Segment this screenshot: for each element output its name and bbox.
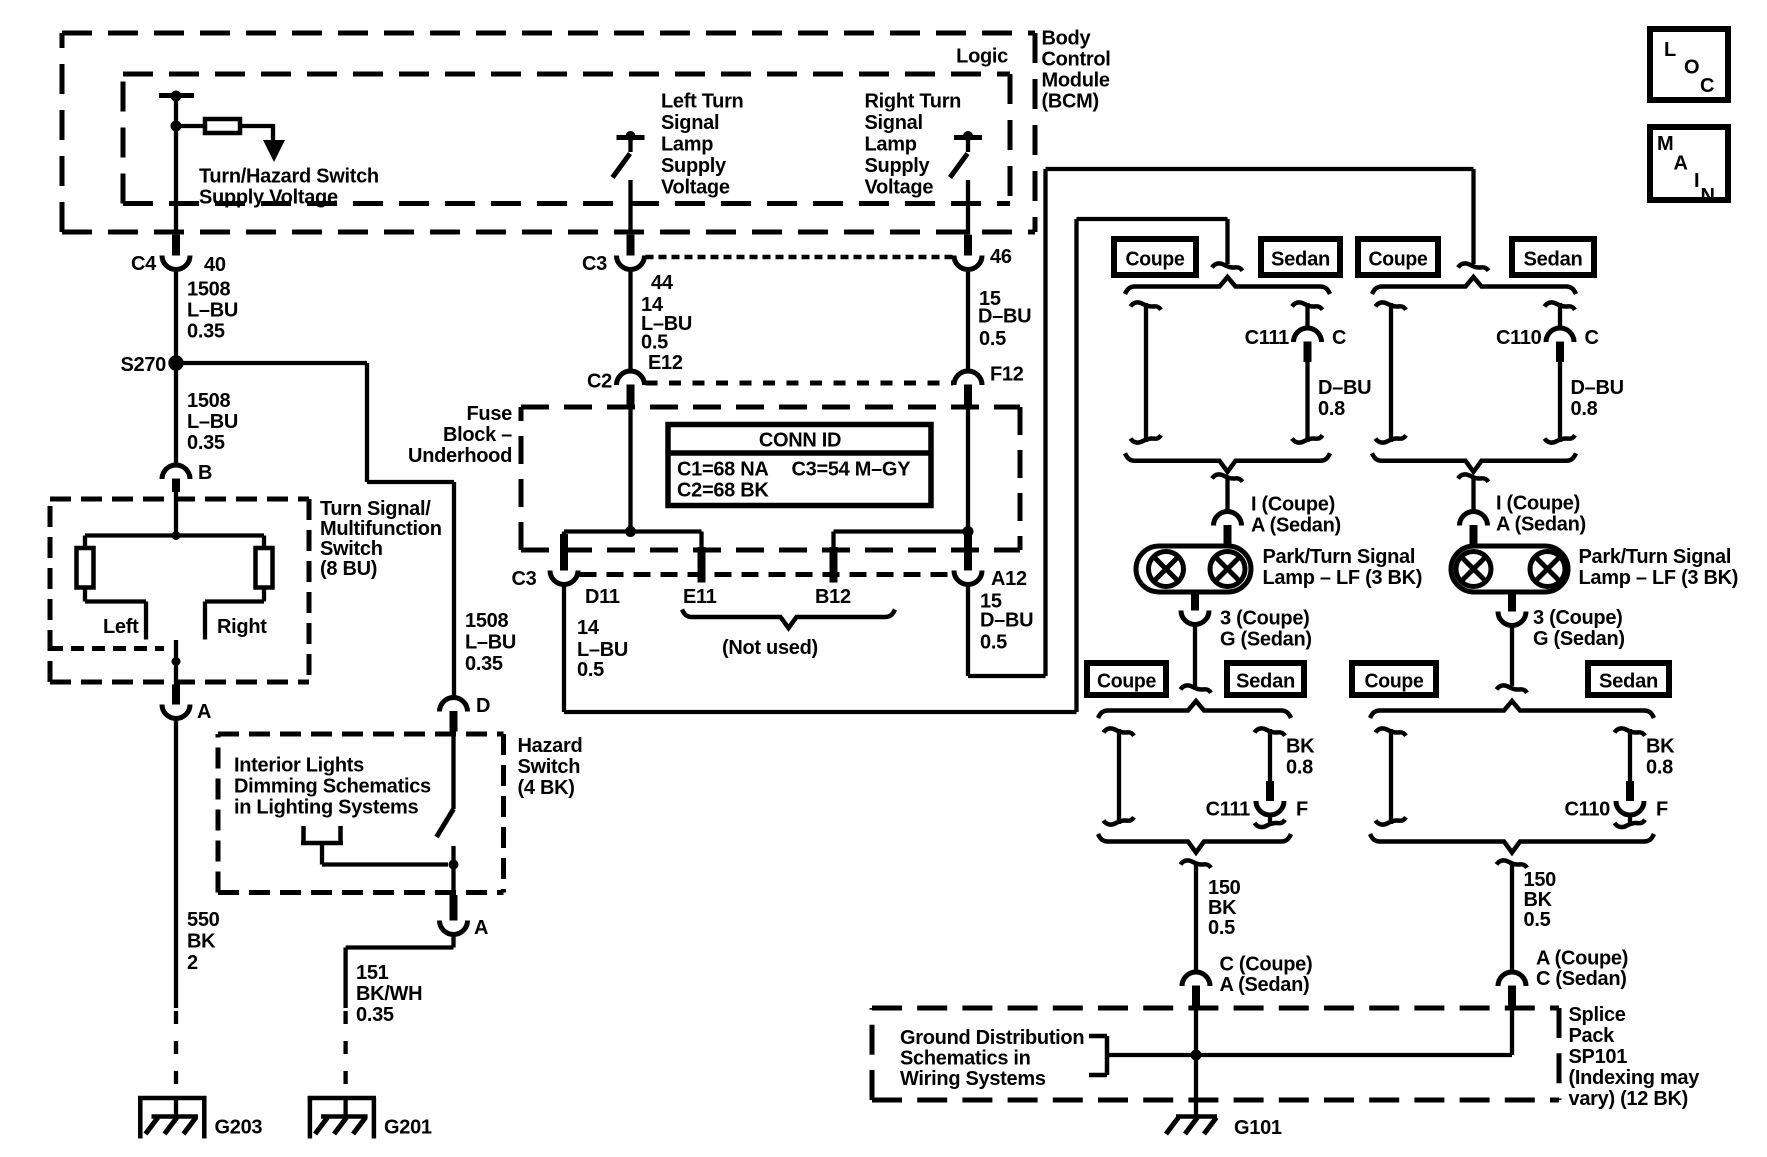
svg-text:Right Turn: Right Turn (865, 91, 962, 113)
wire: ground distribution bracket (1089, 1036, 1107, 1075)
svg-text:3 (Coupe): 3 (Coupe) (1533, 607, 1623, 629)
svg-text:in Lighting Systems: in Lighting Systems (234, 797, 418, 819)
svg-text:G (Sedan): G (Sedan) (1533, 628, 1625, 650)
svg-text:C111: C111 (1245, 327, 1290, 349)
svg-text:Block –: Block – (443, 424, 512, 446)
wire: top tick (159, 91, 194, 102)
connector pin F12 (954, 364, 1024, 407)
svg-text:C (Coupe): C (Coupe) (1220, 954, 1313, 976)
label circuit 15 D-BU 0.5 (A12) (980, 591, 1033, 654)
svg-text:D–BU: D–BU (1571, 377, 1624, 399)
wire: D11 drop (562, 532, 566, 539)
svg-text:C111: C111 (1206, 799, 1251, 821)
svg-text:0.35: 0.35 (356, 1004, 394, 1026)
node: fuse block right junction (963, 526, 974, 537)
svg-text:Body: Body (1042, 28, 1092, 50)
node: switch input junction (172, 531, 181, 540)
wire: switch pole (174, 640, 178, 685)
svg-text:Dimming Schematics: Dimming Schematics (234, 776, 431, 798)
svg-text:Lamp – LF (3 BK): Lamp – LF (3 BK) (1263, 567, 1423, 589)
svg-text:SP101: SP101 (1569, 1046, 1628, 1068)
wire: B into switch (174, 492, 178, 536)
svg-text:Switch: Switch (320, 538, 383, 560)
svg-text:C: C (1700, 75, 1714, 97)
svg-text:0.8: 0.8 (1286, 757, 1313, 779)
svg-text:(4 BK): (4 BK) (518, 777, 575, 799)
wire: row2 output left (1181, 860, 1212, 972)
svg-text:C3=54 M–GY: C3=54 M–GY (792, 459, 912, 481)
label Body Control Module (BCM) (1042, 28, 1111, 113)
svg-text:Left: Left (103, 616, 139, 638)
svg-text:M: M (1657, 133, 1673, 155)
brace: right group top (1372, 277, 1576, 294)
wire: 44 to E12 (628, 269, 632, 372)
wire: sedan drop (R1) (1545, 302, 1576, 328)
svg-text:BK: BK (1208, 897, 1237, 919)
wire: coupe bus bar (L1) (1131, 302, 1162, 442)
svg-text:1508: 1508 (465, 610, 508, 632)
wire: coupe bus bar (R2) (1376, 728, 1407, 824)
wire: sedan bar lower (R1) (1545, 362, 1576, 443)
svg-text:G101: G101 (1234, 1117, 1282, 1139)
svg-text:Underhood: Underhood (408, 445, 512, 467)
svg-text:Sedan: Sedan (1524, 248, 1583, 270)
node: pole junction (172, 657, 181, 666)
svg-text:C1=68 NA: C1=68 NA (677, 459, 769, 481)
svg-text:O: O (1684, 57, 1699, 79)
ground G101 (1166, 1117, 1282, 1140)
wire: internal bus B12-F12 (834, 529, 969, 533)
svg-text:151: 151 (356, 962, 389, 984)
brace: left group row2 bottom (1098, 834, 1291, 853)
brace: not used pins (682, 610, 895, 629)
svg-text:A (Sedan): A (Sedan) (1251, 515, 1341, 537)
node: hazard output junction (449, 860, 459, 870)
svg-text:BK: BK (187, 931, 216, 953)
svg-text:550: 550 (187, 909, 220, 931)
wire: sedan bar lower (R2) (1615, 815, 1646, 828)
svg-text:C3: C3 (512, 568, 537, 590)
svg-text:Voltage: Voltage (865, 177, 934, 199)
box Coupe (R1) (1358, 239, 1438, 275)
label Park/Turn Signal Lamp - LF (3 BK) left (1263, 546, 1423, 589)
svg-text:I (Coupe): I (Coupe) (1496, 493, 1580, 515)
svg-text:(Indexing may: (Indexing may (1569, 1067, 1701, 1089)
svg-text:I (Coupe): I (Coupe) (1251, 494, 1335, 516)
svg-text:44: 44 (651, 272, 674, 294)
svg-text:0.5: 0.5 (1208, 917, 1235, 939)
box Sedan (L1) (1261, 239, 1340, 275)
node: right group row2 split (1497, 685, 1528, 692)
wire: S270 down to connector B (174, 363, 178, 466)
wire: dotted connector row C3 (646, 255, 953, 260)
svg-text:0.35: 0.35 (187, 432, 225, 454)
svg-text:Wiring Systems: Wiring Systems (900, 1068, 1046, 1090)
brace: right group bottom (1372, 453, 1576, 472)
wire: left lamp to row2 (1193, 624, 1197, 686)
svg-text:0.35: 0.35 (187, 321, 225, 343)
svg-text:Park/Turn Signal: Park/Turn Signal (1579, 546, 1732, 568)
svg-text:G201: G201 (384, 1117, 432, 1139)
wire: F12 wire inside fuse block (966, 406, 970, 532)
label Ground Distribution Schematics in Wiring Systems (900, 1027, 1084, 1090)
wire: dashed drop to G203 (174, 1011, 178, 1117)
svg-text:1508: 1508 (187, 279, 230, 301)
label Turn Signal/Multifunction Switch (8 BU) (320, 498, 442, 580)
svg-text:Ground Distribution: Ground Distribution (900, 1027, 1084, 1049)
svg-text:Control: Control (1042, 49, 1111, 71)
box: Logic inner dashed box (123, 74, 1010, 204)
svg-text:G203: G203 (215, 1117, 263, 1139)
connector C111 pin F (1206, 781, 1308, 821)
svg-text:0.8: 0.8 (1646, 757, 1673, 779)
svg-text:C3: C3 (582, 253, 607, 275)
label circuit 150 BK 0.5 left (1208, 877, 1241, 939)
svg-text:Hazard: Hazard (518, 735, 583, 757)
svg-text:Lamp: Lamp (865, 134, 917, 156)
svg-text:N: N (1701, 185, 1715, 207)
svg-text:B: B (198, 462, 212, 484)
wire: to right lamp (1458, 474, 1489, 511)
svg-text:A: A (197, 701, 211, 723)
svg-text:Splice: Splice (1569, 1004, 1626, 1026)
svg-text:Sedan: Sedan (1271, 248, 1330, 270)
connector A hazard switch (440, 895, 489, 939)
svg-text:F12: F12 (990, 364, 1024, 386)
svg-text:L–BU: L–BU (577, 639, 628, 661)
wire: splice to G101 (1194, 1055, 1198, 1117)
pin E11 (not used) (683, 532, 717, 609)
label pin 3 (Coupe) G (Sedan) left (1220, 608, 1312, 651)
connector right lamp input (1460, 512, 1488, 546)
connector C3 pin 44 (582, 235, 674, 294)
svg-text:E11: E11 (683, 586, 717, 608)
brace: left group top (1125, 277, 1330, 294)
svg-text:0.5: 0.5 (980, 632, 1007, 654)
resistor: left turn position (77, 548, 94, 588)
svg-text:G (Sedan): G (Sedan) (1220, 629, 1312, 651)
label circuit 1508 L-BU 0.35 (to switch) (187, 390, 238, 454)
wire: E12 wire inside fuse block (628, 406, 632, 532)
wire: hazard A to G201 (346, 934, 454, 1008)
label Hazard Switch (4 BK) (518, 735, 583, 799)
lamp: Park/Turn Signal Lamp LF (left) (1136, 546, 1251, 592)
label pin I (Coupe) A (Sedan) right (1496, 493, 1586, 536)
wire: sedan drop (L1) (1292, 302, 1323, 328)
connector C3 pin D11 (512, 534, 620, 608)
svg-text:Left Turn: Left Turn (661, 91, 743, 113)
svg-text:(8 BU): (8 BU) (320, 558, 377, 580)
svg-text:Lamp: Lamp (661, 134, 713, 156)
box: Splice Pack SP101 dashed box (872, 1008, 1559, 1100)
wire: hazard out to A (451, 865, 455, 896)
svg-text:Pack: Pack (1569, 1025, 1616, 1047)
node: fuse block left junction (625, 526, 636, 537)
svg-text:BK: BK (1646, 736, 1675, 758)
wire: internal bus D11-E11 (564, 529, 702, 533)
legend LOC box (1650, 29, 1728, 100)
pin B12 (not used) (815, 532, 851, 609)
svg-text:E12: E12 (648, 352, 683, 374)
svg-text:L–BU: L–BU (187, 300, 238, 322)
svg-text:Lamp – LF (3 BK): Lamp – LF (3 BK) (1579, 567, 1739, 589)
svg-text:(Not used): (Not used) (722, 637, 818, 659)
svg-text:I: I (1694, 170, 1699, 192)
wire: to left lamp (1212, 474, 1243, 511)
wire: sedan drop (R2) (1615, 728, 1646, 781)
svg-text:C2: C2 (587, 371, 612, 393)
svg-text:A12: A12 (991, 568, 1027, 590)
node: left group split (1212, 263, 1243, 270)
svg-text:C110: C110 (1496, 327, 1542, 349)
svg-text:A: A (1674, 153, 1688, 175)
svg-text:D–BU: D–BU (980, 610, 1033, 632)
svg-text:Fuse: Fuse (467, 403, 513, 425)
ground G203 (138, 1098, 262, 1139)
node: G101 junction (1191, 1050, 1202, 1061)
svg-text:C110: C110 (1564, 799, 1610, 821)
wire: left switch to C3 (628, 180, 632, 235)
svg-text:Switch: Switch (518, 756, 581, 778)
connector C111 pin C (1245, 327, 1347, 362)
svg-text:Turn/Hazard Switch: Turn/Hazard Switch (199, 166, 379, 188)
connector C2 pin E12 (587, 352, 683, 406)
wire: right contact (205, 588, 264, 640)
svg-text:2: 2 (187, 952, 198, 974)
table: CONN ID (668, 425, 931, 506)
svg-text:L–BU: L–BU (187, 411, 238, 433)
svg-text:A (Sedan): A (Sedan) (1496, 514, 1586, 536)
svg-text:BK/WH: BK/WH (356, 983, 422, 1005)
label circuit D-BU 0.8 (R1) (1571, 377, 1624, 420)
connector left lamp output (1181, 592, 1209, 625)
svg-text:Logic: Logic (956, 46, 1008, 68)
label pin C (Coupe) A (Sedan) (1220, 954, 1313, 997)
label circuit BK 0.8 (R2) (1646, 736, 1675, 779)
svg-text:0.5: 0.5 (641, 332, 668, 354)
label circuit D-BU 0.8 (L1) (1318, 377, 1371, 420)
wire: to resistor (176, 124, 205, 128)
brace: left group row2 top (1098, 701, 1291, 718)
wire: S270 branch to hazard feed (176, 363, 454, 698)
svg-text:A (Sedan): A (Sedan) (1220, 974, 1310, 996)
svg-text:Coupe: Coupe (1365, 670, 1424, 692)
wire: dotted connector row D11-A12 (580, 572, 954, 577)
label circuit 151 BK/WH 0.35 (356, 962, 422, 1026)
svg-text:Coupe: Coupe (1097, 670, 1156, 692)
label Logic (956, 46, 1008, 68)
box: Body Control Module (BCM) outer dashed box (62, 33, 1035, 232)
connector C110 pin F (1564, 781, 1668, 821)
label Fuse Block - Underhood (408, 403, 512, 467)
box Coupe (L1) (1114, 239, 1196, 275)
brace: right group row2 top (1370, 701, 1654, 718)
switch: hazard blade (437, 732, 454, 865)
svg-text:Right: Right (217, 616, 267, 638)
svg-text:C: C (1585, 327, 1599, 349)
svg-text:D: D (476, 695, 490, 717)
wire: into splice pack right (1510, 1008, 1514, 1056)
svg-text:0.8: 0.8 (1571, 398, 1598, 420)
wire: dimming schematics bracket (301, 826, 448, 865)
svg-text:14: 14 (577, 617, 600, 639)
ground G201 (308, 1098, 432, 1139)
svg-text:0.5: 0.5 (577, 659, 604, 681)
connector D hazard switch (440, 695, 491, 732)
svg-text:Park/Turn Signal: Park/Turn Signal (1263, 546, 1416, 568)
svg-text:L–BU: L–BU (465, 632, 516, 654)
svg-text:C: C (1332, 327, 1346, 349)
resistor: turn/hazard supply (205, 119, 240, 133)
label circuit 1508 L-BU 0.35 (hazard feed) (465, 610, 516, 675)
brace: right group row2 bottom (1370, 834, 1654, 853)
wire: internal dashed partition (50, 646, 164, 651)
wire: D11 to left lamp group (564, 219, 1228, 712)
svg-text:Turn Signal/: Turn Signal/ (320, 498, 431, 520)
label Interior Lights Dimming Schematics in Lighting Systems (234, 755, 431, 819)
switch: left turn signal output (613, 131, 645, 178)
connector right lamp output (1498, 592, 1526, 626)
connector C110 pin C (1496, 327, 1599, 362)
svg-text:150: 150 (1208, 877, 1241, 899)
svg-text:F: F (1296, 799, 1308, 821)
svg-text:S270: S270 (120, 354, 166, 376)
connector left to splice pack (1182, 972, 1210, 1008)
wire: dashed drop to G201 (343, 1011, 347, 1117)
node S270 splice (120, 354, 183, 376)
brace: left group bottom (1125, 453, 1330, 472)
wire: dotted connector row E12-F12 (646, 381, 954, 386)
svg-text:C (Sedan): C (Sedan) (1536, 968, 1627, 990)
connector A turn signal switch (162, 685, 211, 724)
box: Hazard Switch dashed box (218, 734, 504, 893)
svg-text:Coupe: Coupe (1369, 248, 1428, 270)
wire: coupe bus bar (L2) (1104, 728, 1135, 824)
label Right (217, 616, 267, 638)
label Turn/Hazard Switch Supply Voltage (199, 166, 379, 209)
svg-text:F: F (1656, 799, 1668, 821)
wire: A to G203 (174, 719, 178, 1009)
svg-text:Signal: Signal (661, 112, 719, 134)
wire: A12 to right lamp group (968, 169, 1474, 676)
connector left lamp input (1214, 512, 1242, 546)
svg-text:A: A (474, 917, 488, 939)
legend MAIN box (1650, 127, 1728, 207)
connector C4 pin 40 (131, 235, 226, 276)
svg-text:BK: BK (1286, 736, 1315, 758)
svg-text:0.8: 0.8 (1318, 398, 1345, 420)
svg-text:1508: 1508 (187, 390, 230, 412)
box Coupe (R2) (1352, 663, 1436, 695)
box Sedan (L2) (1227, 663, 1304, 695)
switch: right turn signal output (950, 131, 982, 178)
label Left Turn Signal Lamp Supply Voltage (661, 91, 743, 199)
svg-text:D11: D11 (585, 586, 620, 608)
svg-text:46: 46 (990, 246, 1012, 268)
label Right Turn Signal Lamp Supply Voltage (865, 91, 962, 199)
svg-text:B12: B12 (815, 586, 851, 608)
label circuit 14 L-BU 0.5 (D11) (577, 617, 628, 681)
wire: right switch to pin 46 (966, 180, 970, 235)
node: right group split (1458, 263, 1489, 270)
label pin 3 (Coupe) G (Sedan) right (1533, 607, 1625, 650)
svg-text:Sedan: Sedan (1236, 670, 1295, 692)
svg-text:CONN ID: CONN ID (759, 430, 841, 452)
svg-text:0.5: 0.5 (979, 328, 1006, 350)
wire: switch internal bus (85, 536, 264, 549)
wire: BCM supply vertical (174, 96, 178, 235)
svg-text:150: 150 (1524, 869, 1557, 891)
svg-text:A (Coupe): A (Coupe) (1536, 948, 1628, 970)
label Splice Pack SP101 (1569, 1004, 1701, 1110)
svg-text:0.35: 0.35 (465, 653, 503, 675)
wire: splice pack bus (1107, 1053, 1512, 1057)
connector right to splice pack (1498, 972, 1526, 1008)
box: Turn Signal/Multifunction Switch dashed box (50, 499, 309, 682)
label (Not used) (722, 637, 818, 659)
svg-text:Signal: Signal (865, 112, 923, 134)
node: junction at resistor tap (171, 121, 182, 132)
wire: row2 output right (1497, 860, 1528, 972)
label pin I (Coupe) A (Sedan) left (1251, 494, 1341, 537)
wire: coupe bus bar (R1) (1376, 302, 1407, 442)
label pin A (Coupe) C (Sedan) (1536, 948, 1628, 991)
wire: 46 to F12 (966, 269, 970, 372)
label circuit 14 L-BU 0.5 (641, 294, 692, 354)
svg-text:3 (Coupe): 3 (Coupe) (1220, 608, 1310, 630)
svg-text:Coupe: Coupe (1126, 248, 1185, 270)
wire: sedan bar lower (L2) (1255, 815, 1286, 828)
svg-text:Supply: Supply (661, 155, 727, 177)
svg-text:Supply: Supply (865, 155, 931, 177)
svg-text:vary) (12 BK): vary) (12 BK) (1569, 1088, 1688, 1110)
svg-text:BK: BK (1524, 889, 1553, 911)
svg-text:Interior Lights: Interior Lights (234, 755, 364, 777)
wire: into splice pack left (1194, 1008, 1198, 1056)
node: left group row2 split (1181, 685, 1212, 692)
label circuit 150 BK 0.5 right (1524, 869, 1557, 931)
svg-text:C4: C4 (131, 253, 157, 275)
label Left (103, 616, 139, 638)
box Coupe (L2) (1087, 663, 1166, 695)
label Park/Turn Signal Lamp - LF (3 BK) right (1579, 546, 1739, 589)
wire: resistor to arrow corner (240, 124, 273, 142)
svg-text:D–BU: D–BU (978, 306, 1031, 328)
lamp: Park/Turn Signal Lamp LF (right) (1451, 546, 1568, 592)
label circuit 1508 L-BU 0.35 (upper) (187, 279, 238, 343)
svg-text:Module: Module (1042, 70, 1110, 92)
wire: sedan bar lower (L1) (1292, 362, 1323, 443)
svg-text:Voltage: Voltage (661, 177, 730, 199)
connector pin A12 (954, 532, 1027, 591)
box Sedan (R2) (1588, 663, 1669, 695)
svg-text:40: 40 (204, 254, 226, 276)
arrow: supply voltage arrowhead (263, 140, 285, 162)
svg-text:(BCM): (BCM) (1042, 91, 1099, 113)
label circuit BK 0.8 (L2) (1286, 736, 1315, 779)
svg-text:Supply Voltage: Supply Voltage (199, 187, 338, 209)
svg-text:0.5: 0.5 (1524, 909, 1551, 931)
wire: C4 to S270 (174, 269, 178, 363)
box: Fuse Block - Underhood dashed box (521, 407, 1020, 550)
wire: right lamp to row2 (1510, 625, 1514, 686)
wire: left contact (85, 588, 146, 640)
wire: sedan drop (L2) (1255, 728, 1286, 781)
svg-text:C2=68 BK: C2=68 BK (677, 480, 769, 502)
label circuit 15 D-BU 0.5 (978, 288, 1031, 350)
svg-text:Multifunction: Multifunction (320, 518, 442, 540)
svg-text:L: L (1664, 39, 1676, 61)
